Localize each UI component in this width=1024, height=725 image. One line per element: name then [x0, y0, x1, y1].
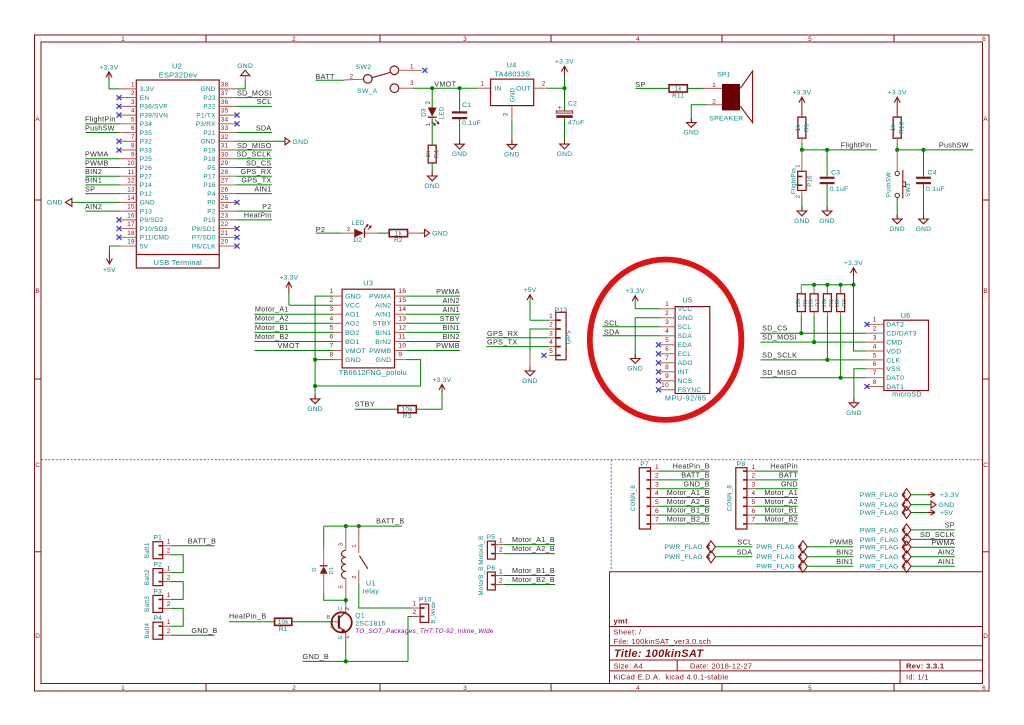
svg-text:SCL: SCL	[604, 318, 619, 327]
svg-text:P34: P34	[140, 121, 152, 128]
svg-text:2: 2	[665, 310, 669, 317]
svg-text:1: 1	[121, 36, 125, 43]
svg-text:2: 2	[292, 685, 296, 692]
svg-text:GPS_RX: GPS_RX	[487, 329, 518, 338]
svg-text:1: 1	[352, 544, 358, 548]
svg-text:BIN2: BIN2	[443, 332, 460, 341]
svg-text:ymt: ymt	[614, 617, 629, 626]
svg-text:3: 3	[665, 319, 669, 326]
svg-text:PWR_FLAG: PWR_FLAG	[860, 564, 899, 571]
svg-text:3: 3	[330, 624, 333, 630]
svg-text:2: 2	[131, 90, 135, 97]
svg-text:SD_MISO: SD_MISO	[762, 368, 797, 377]
svg-text:5: 5	[873, 352, 877, 359]
svg-text:47uF: 47uF	[568, 120, 585, 127]
svg-text:U1: U1	[366, 581, 376, 588]
svg-text:20: 20	[221, 239, 229, 246]
svg-text:PWR_FLAG: PWR_FLAG	[860, 527, 899, 534]
svg-text:B: B	[35, 288, 40, 295]
svg-text:Rev: 3.3.1: Rev: 3.3.1	[906, 662, 945, 671]
svg-text:2: 2	[167, 574, 171, 581]
svg-text:1: 1	[499, 568, 503, 575]
svg-text:SD_MISO: SD_MISO	[237, 141, 272, 150]
svg-text:1: 1	[499, 537, 503, 544]
svg-text:P26: P26	[140, 165, 152, 172]
svg-text:GND: GND	[678, 315, 694, 322]
svg-text:USB Terminal: USB Terminal	[153, 258, 202, 267]
svg-text:AIN2: AIN2	[375, 303, 391, 310]
svg-text:BATT_B: BATT_B	[681, 471, 709, 480]
svg-text:E: E	[338, 635, 344, 639]
svg-text:STBY: STBY	[355, 400, 375, 409]
svg-text:2: 2	[549, 322, 553, 329]
svg-text:3: 3	[503, 112, 510, 116]
svg-text:32: 32	[221, 134, 229, 141]
svg-text:GND: GND	[846, 410, 862, 417]
svg-text:10: 10	[661, 382, 669, 389]
svg-text:PWR_FLAG: PWR_FLAG	[756, 554, 795, 561]
svg-text:BIN2: BIN2	[85, 167, 102, 176]
svg-text:R8: R8	[829, 299, 835, 307]
svg-text:+5V: +5V	[524, 287, 537, 294]
svg-text:FlightPin: FlightPin	[841, 140, 872, 149]
svg-text:1: 1	[481, 81, 485, 88]
svg-text:4: 4	[873, 343, 877, 350]
svg-text:1: 1	[131, 82, 135, 89]
svg-text:AIN2: AIN2	[938, 547, 955, 556]
svg-text:P1: P1	[153, 535, 162, 542]
svg-text:PWR_FLAG: PWR_FLAG	[860, 545, 899, 552]
svg-text:P25: P25	[140, 156, 152, 163]
svg-text:ESP32Dev: ESP32Dev	[159, 71, 198, 80]
svg-text:IN: IN	[495, 85, 502, 92]
svg-text:6: 6	[330, 334, 334, 341]
svg-text:+5V: +5V	[940, 510, 953, 517]
svg-text:GND: GND	[916, 226, 932, 233]
svg-text:Batt2: Batt2	[144, 569, 151, 585]
svg-text:Batt4: Batt4	[144, 622, 151, 638]
svg-text:1: 1	[655, 464, 659, 471]
svg-text:PWR_FLAG: PWR_FLAG	[756, 564, 795, 571]
svg-text:VCC: VCC	[345, 303, 360, 310]
svg-text:34: 34	[221, 116, 229, 123]
svg-text:DAT0: DAT0	[886, 375, 904, 382]
svg-text:P5: P5	[487, 534, 496, 541]
svg-text:15: 15	[398, 297, 406, 304]
svg-text:P33: P33	[140, 147, 152, 154]
svg-text:8: 8	[665, 364, 669, 371]
svg-text:GND: GND	[510, 87, 517, 102]
svg-text:3: 3	[410, 80, 414, 87]
svg-text:PWR_FLAG: PWR_FLAG	[860, 502, 899, 509]
svg-text:3: 3	[338, 543, 344, 547]
svg-text:28: 28	[221, 169, 229, 176]
svg-text:U5: U5	[683, 296, 693, 305]
svg-text:EN: EN	[140, 95, 150, 102]
svg-text:P27: P27	[140, 174, 152, 181]
svg-text:AIN2: AIN2	[443, 296, 460, 305]
svg-text:BIN1: BIN1	[443, 323, 460, 332]
svg-text:+3.3V: +3.3V	[279, 275, 298, 282]
svg-text:1: 1	[413, 601, 417, 608]
svg-text:5V: 5V	[140, 243, 149, 250]
svg-text:PWMA: PWMA	[436, 287, 460, 296]
svg-text:3.3V: 3.3V	[140, 86, 155, 93]
svg-text:GND: GND	[794, 218, 810, 225]
svg-text:AIN2: AIN2	[85, 202, 102, 211]
svg-text:VMOT: VMOT	[278, 341, 300, 350]
svg-text:6: 6	[752, 508, 756, 515]
svg-text:DAT1: DAT1	[886, 384, 904, 391]
svg-text:8: 8	[330, 352, 334, 359]
svg-text:Motor_A2_B: Motor_A2_B	[667, 497, 710, 506]
svg-text:INT: INT	[678, 369, 690, 376]
svg-text:5: 5	[752, 499, 756, 506]
svg-text:2: 2	[352, 575, 358, 579]
svg-text:BATT: BATT	[316, 72, 335, 81]
svg-text:SD_MOSI: SD_MOSI	[237, 88, 271, 97]
svg-text:2: 2	[167, 548, 171, 555]
svg-text:7: 7	[655, 517, 659, 524]
svg-text:SD_MOSI: SD_MOSI	[762, 333, 797, 342]
svg-text:+: +	[558, 105, 562, 112]
svg-text:P2: P2	[262, 202, 271, 211]
svg-text:HeatPin_B: HeatPin_B	[229, 612, 267, 621]
svg-text:SDA: SDA	[604, 327, 620, 336]
svg-text:C: C	[338, 606, 344, 610]
svg-text:P22: P22	[203, 104, 215, 111]
svg-text:2: 2	[292, 36, 296, 43]
svg-text:Motor_B2: Motor_B2	[764, 515, 798, 524]
svg-text:P7: P7	[640, 461, 649, 468]
svg-text:C: C	[35, 462, 40, 469]
svg-text:4: 4	[131, 108, 135, 115]
svg-text:LED: LED	[440, 106, 446, 119]
svg-text:2: 2	[413, 609, 417, 616]
svg-text:HeatPin_B: HeatPin_B	[673, 462, 710, 471]
svg-text:4: 4	[752, 490, 756, 497]
svg-text:15: 15	[127, 204, 135, 211]
svg-text:1: 1	[795, 164, 801, 168]
svg-text:GND: GND	[557, 151, 573, 158]
svg-text:DAT2: DAT2	[886, 322, 904, 329]
svg-text:Motor_B1_B: Motor_B1_B	[667, 506, 710, 515]
svg-text:BO1: BO1	[345, 339, 360, 346]
svg-text:+3.3V: +3.3V	[100, 64, 119, 71]
svg-text:B_Wide: B_Wide	[431, 601, 437, 623]
svg-text:EDA: EDA	[678, 342, 693, 349]
svg-text:STBY: STBY	[440, 314, 460, 323]
svg-text:BATT_B: BATT_B	[188, 536, 216, 545]
svg-text:AO2: AO2	[345, 321, 360, 328]
svg-text:KiCad E.D.A. kicad 4.0.1-stab: KiCad E.D.A. kicad 4.0.1-stable	[614, 672, 729, 681]
svg-text:7: 7	[752, 517, 756, 524]
svg-text:2: 2	[347, 227, 351, 233]
svg-text:Motor_A2: Motor_A2	[764, 497, 798, 506]
svg-text:7: 7	[330, 343, 334, 350]
svg-text:P13: P13	[140, 208, 152, 215]
svg-text:TA48033S: TA48033S	[494, 69, 530, 78]
svg-text:P21: P21	[203, 130, 215, 137]
svg-text:GND: GND	[684, 130, 700, 137]
svg-text:BIN1: BIN1	[836, 557, 853, 566]
svg-text:GPS_TX: GPS_TX	[241, 176, 271, 185]
svg-text:2: 2	[426, 100, 432, 104]
svg-text:PWR_FLAG: PWR_FLAG	[756, 544, 795, 551]
svg-text:1: 1	[330, 288, 334, 295]
svg-text:PWMA: PWMA	[931, 538, 955, 547]
svg-text:SD_CS: SD_CS	[762, 324, 788, 333]
svg-text:Motor_A1_B: Motor_A1_B	[512, 535, 555, 544]
svg-text:GND: GND	[819, 218, 835, 225]
svg-text:GND: GND	[47, 200, 63, 207]
svg-text:R4: R4	[434, 150, 441, 159]
svg-text:29: 29	[221, 160, 229, 167]
svg-text:Motor_B1_B: Motor_B1_B	[512, 566, 555, 575]
svg-text:Motor_B2_B: Motor_B2_B	[512, 575, 555, 584]
svg-text:Id: 1/1: Id: 1/1	[906, 672, 929, 681]
svg-text:R5: R5	[803, 123, 810, 132]
svg-text:P23: P23	[203, 95, 215, 102]
svg-text:1: 1	[549, 313, 553, 320]
svg-text:STBY: STBY	[373, 321, 392, 328]
svg-text:PWMA: PWMA	[85, 150, 109, 159]
svg-text:2: 2	[795, 195, 801, 199]
svg-text:U3: U3	[363, 279, 373, 288]
svg-text:PWMA: PWMA	[369, 294, 392, 301]
svg-text:5: 5	[330, 324, 334, 331]
svg-text:+5V: +5V	[103, 267, 116, 274]
svg-text:Motor_B2_B: Motor_B2_B	[667, 515, 710, 524]
svg-text:38: 38	[221, 82, 229, 89]
svg-text:SD_SCLK: SD_SCLK	[762, 350, 797, 359]
svg-text:P4: P4	[153, 615, 162, 622]
svg-text:19: 19	[127, 239, 135, 246]
svg-text:3: 3	[131, 99, 135, 106]
svg-text:Motor_A1: Motor_A1	[255, 305, 289, 314]
svg-text:FlightPin: FlightPin	[791, 168, 797, 194]
svg-text:+3.3V: +3.3V	[433, 377, 452, 384]
svg-text:GND: GND	[140, 200, 155, 207]
svg-text:CONN_8: CONN_8	[631, 485, 637, 512]
svg-text:U2: U2	[172, 62, 182, 71]
svg-text:SDA: SDA	[678, 333, 693, 340]
svg-text:GND: GND	[522, 378, 538, 385]
svg-text:GPS_RX: GPS_RX	[241, 167, 272, 176]
svg-text:MotorA_B: MotorA_B	[479, 536, 485, 565]
svg-text:P14: P14	[140, 182, 152, 189]
svg-text:GND_B: GND_B	[191, 626, 217, 635]
svg-text:16: 16	[127, 212, 135, 219]
svg-text:25: 25	[221, 195, 229, 202]
svg-text:5: 5	[665, 337, 669, 344]
svg-text:2: 2	[873, 326, 877, 333]
svg-text:14: 14	[398, 306, 406, 313]
svg-text:SPEAKER: SPEAKER	[709, 115, 743, 122]
svg-text:A: A	[983, 116, 988, 123]
svg-text:3: 3	[873, 335, 877, 342]
svg-text:AIN1: AIN1	[254, 184, 271, 193]
svg-text:6: 6	[982, 685, 986, 692]
svg-text:33: 33	[221, 125, 229, 132]
svg-text:BO2: BO2	[345, 330, 360, 337]
svg-text:Motor_A2: Motor_A2	[255, 314, 289, 323]
svg-text:PushSW: PushSW	[887, 172, 893, 197]
svg-text:TB6612FNG_pololu: TB6612FNG_pololu	[339, 368, 407, 377]
svg-text:C2: C2	[568, 101, 577, 108]
svg-text:CONN_8: CONN_8	[728, 485, 734, 512]
svg-text:D: D	[35, 633, 40, 640]
svg-text:Title: 100kinSAT: Title: 100kinSAT	[614, 648, 704, 660]
svg-text:PWR_FLAG: PWR_FLAG	[860, 554, 899, 561]
svg-text:GND: GND	[237, 63, 253, 70]
svg-text:0.1uF: 0.1uF	[926, 186, 945, 193]
svg-text:1: 1	[167, 539, 171, 546]
svg-text:1: 1	[752, 464, 756, 471]
svg-text:D2: D2	[353, 237, 362, 244]
svg-text:0.1uF: 0.1uF	[830, 186, 849, 193]
svg-text:30: 30	[221, 151, 229, 158]
svg-text:U4: U4	[507, 61, 517, 70]
svg-text:ADO: ADO	[678, 360, 693, 367]
svg-text:R11: R11	[672, 92, 684, 99]
svg-text:C: C	[983, 462, 988, 469]
svg-text:6: 6	[131, 125, 135, 132]
svg-text:10k: 10k	[796, 298, 802, 308]
svg-text:2SC1815: 2SC1815	[355, 620, 385, 627]
svg-text:2: 2	[499, 577, 503, 584]
svg-text:GND: GND	[307, 406, 323, 413]
svg-text:10k: 10k	[835, 298, 841, 308]
svg-text:P11/CMD: P11/CMD	[140, 235, 169, 242]
svg-text:P4: P4	[207, 191, 216, 198]
svg-text:10k: 10k	[822, 298, 828, 308]
svg-text:5: 5	[808, 685, 812, 692]
svg-text:NCS: NCS	[678, 378, 693, 385]
svg-text:Batt3: Batt3	[144, 596, 151, 612]
svg-text:D: D	[983, 633, 988, 640]
svg-text:BATT_B: BATT_B	[376, 517, 404, 526]
svg-text:12: 12	[127, 178, 135, 185]
svg-text:GND: GND	[345, 357, 361, 364]
svg-text:16: 16	[398, 288, 406, 295]
svg-text:SP: SP	[945, 521, 955, 530]
svg-text:GND: GND	[201, 139, 216, 146]
svg-text:GND: GND	[781, 479, 798, 488]
svg-text:4: 4	[665, 328, 669, 335]
svg-text:R3: R3	[403, 413, 412, 420]
svg-text:SCL: SCL	[678, 324, 692, 331]
svg-text:P2: P2	[153, 562, 162, 569]
svg-text:Batt1: Batt1	[144, 542, 151, 558]
svg-text:P19: P19	[203, 147, 215, 154]
svg-text:37: 37	[221, 90, 229, 97]
svg-text:SD_CS: SD_CS	[246, 158, 271, 167]
svg-text:P10/SD3: P10/SD3	[140, 226, 168, 233]
svg-text:P18: P18	[203, 156, 215, 163]
svg-text:GND: GND	[201, 86, 216, 93]
svg-text:7: 7	[131, 134, 135, 141]
svg-text:MPU-92/65: MPU-92/65	[665, 393, 707, 402]
svg-text:1: 1	[167, 592, 171, 599]
svg-text:R2: R2	[394, 237, 403, 244]
svg-text:R1: R1	[279, 626, 288, 633]
svg-text:1: 1	[712, 82, 716, 89]
svg-text:6: 6	[665, 346, 669, 353]
svg-text:HeatPin: HeatPin	[770, 462, 798, 471]
svg-text:8: 8	[873, 379, 877, 386]
svg-text:2: 2	[499, 546, 503, 553]
svg-text:+3.3V: +3.3V	[792, 90, 811, 97]
svg-text:P8: P8	[737, 461, 746, 468]
svg-text:12: 12	[398, 324, 406, 331]
svg-text:P32: P32	[140, 139, 152, 146]
svg-text:AIN1: AIN1	[443, 305, 460, 314]
svg-text:P17: P17	[203, 174, 215, 181]
svg-text:35: 35	[221, 108, 229, 115]
svg-text:9: 9	[131, 151, 135, 158]
svg-text:PWR_FLAG: PWR_FLAG	[860, 492, 899, 499]
svg-text:P12: P12	[140, 191, 152, 198]
svg-text:1: 1	[426, 122, 432, 126]
svg-text:+3.3V: +3.3V	[888, 90, 907, 97]
svg-text:VMOT: VMOT	[345, 348, 366, 355]
svg-text:D: D	[312, 567, 318, 572]
svg-text:B: B	[983, 288, 988, 295]
svg-text:P16: P16	[203, 182, 215, 189]
svg-text:P16: P16	[807, 175, 813, 187]
svg-text:+3.3V: +3.3V	[940, 492, 960, 499]
svg-text:7: 7	[873, 370, 877, 377]
svg-text:D1: D1	[329, 566, 335, 574]
svg-text:4: 4	[655, 490, 659, 497]
svg-text:27: 27	[221, 178, 229, 185]
svg-text:GND: GND	[293, 139, 309, 146]
svg-text:MotorB_B: MotorB_B	[479, 566, 485, 595]
svg-text:PWR_FLAG: PWR_FLAG	[664, 544, 703, 551]
svg-text:GND: GND	[889, 226, 905, 233]
svg-text:P3: P3	[153, 588, 162, 595]
svg-text:4: 4	[636, 36, 640, 43]
svg-text:2: 2	[167, 601, 171, 608]
svg-text:18: 18	[127, 230, 135, 237]
svg-text:Motor_A2_B: Motor_A2_B	[512, 544, 555, 553]
svg-text:D3: D3	[422, 108, 428, 117]
svg-text:P6: P6	[487, 565, 496, 572]
svg-text:+3.3V: +3.3V	[626, 288, 645, 295]
svg-text:Motor_B1: Motor_B1	[255, 323, 289, 332]
svg-text:P2: P2	[316, 225, 326, 234]
svg-text:BIN2: BIN2	[375, 339, 391, 346]
svg-text:2: 2	[542, 81, 546, 88]
svg-text:Motor_A1_B: Motor_A1_B	[667, 488, 710, 497]
svg-text:GND_B: GND_B	[683, 479, 709, 488]
svg-text:PWMB: PWMB	[830, 537, 854, 546]
svg-text:8: 8	[131, 143, 135, 150]
svg-text:11: 11	[398, 334, 405, 341]
svg-text:P36/SVP: P36/SVP	[140, 104, 168, 111]
svg-text:11: 11	[128, 169, 135, 176]
svg-text:0.1uF: 0.1uF	[462, 120, 481, 127]
svg-text:2: 2	[350, 73, 354, 80]
svg-text:Sheet: /: Sheet: /	[614, 628, 643, 637]
svg-text:PWR_FLAG: PWR_FLAG	[664, 554, 703, 561]
svg-text:5: 5	[655, 499, 659, 506]
svg-text:PWMB: PWMB	[369, 348, 392, 355]
svg-text:GND: GND	[345, 294, 361, 301]
svg-text:17: 17	[127, 221, 135, 228]
svg-text:ECL: ECL	[678, 351, 692, 358]
